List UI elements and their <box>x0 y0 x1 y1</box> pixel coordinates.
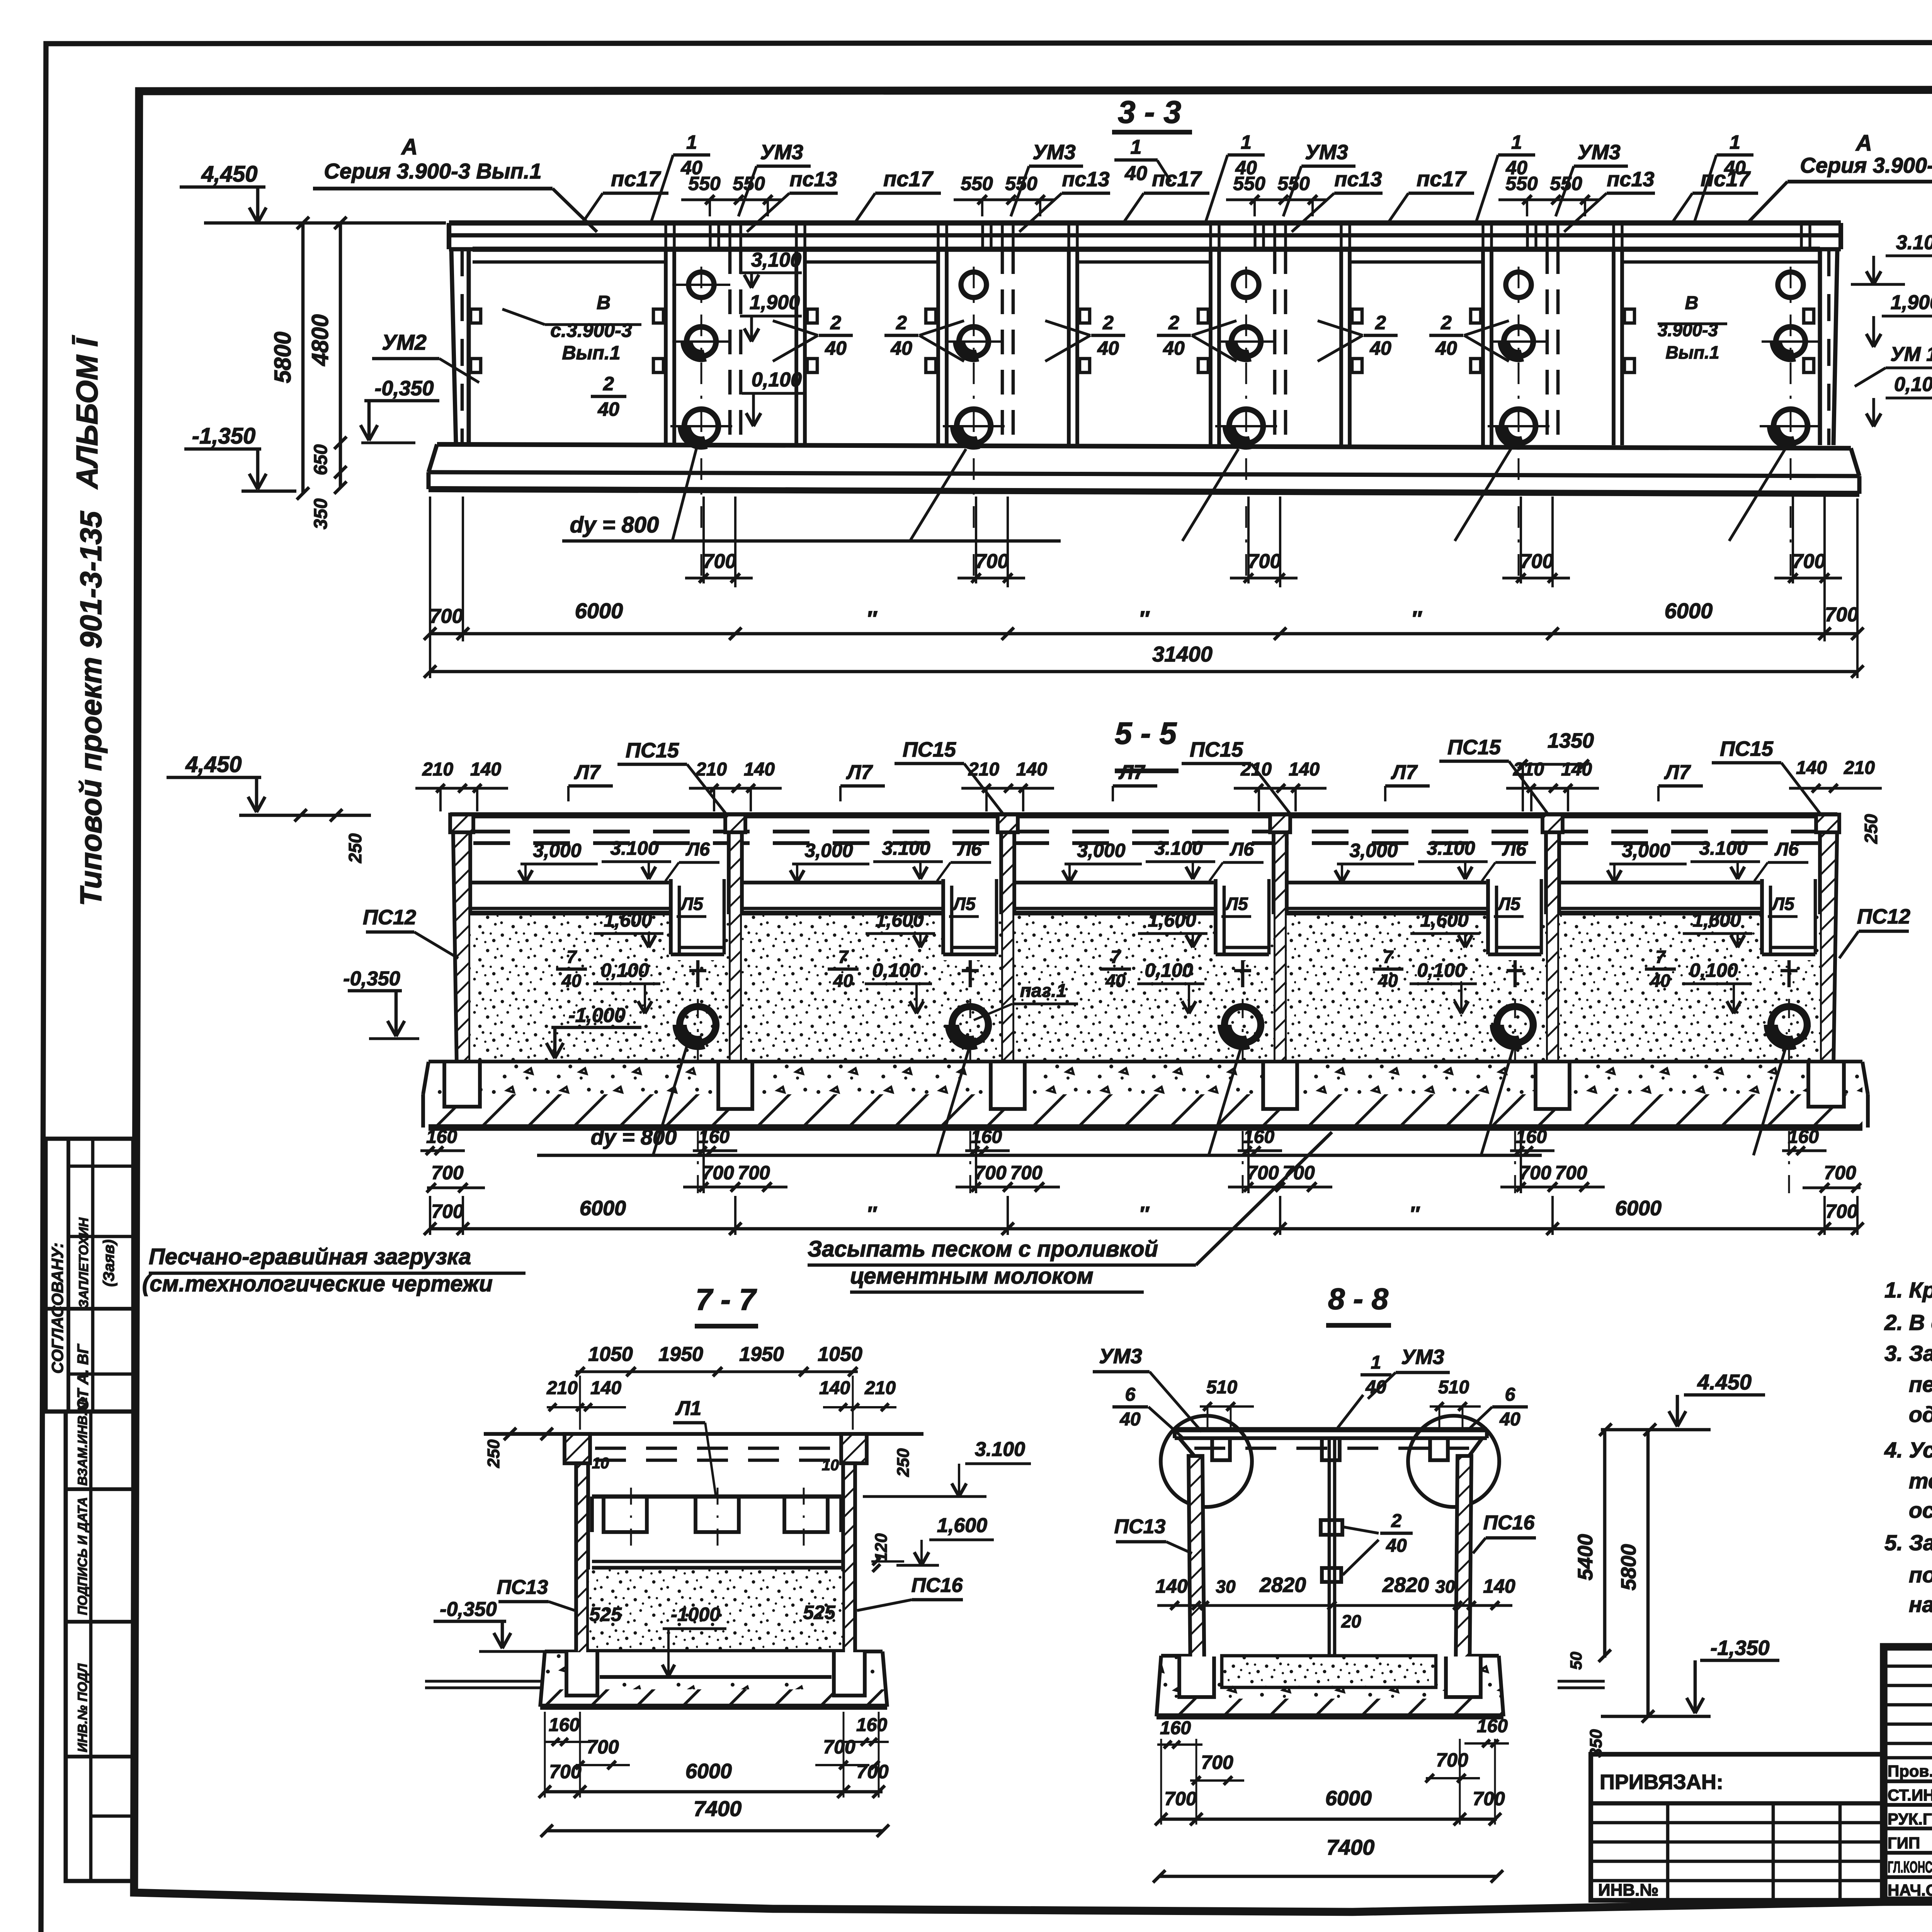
3-3 bay lower chord lines <box>473 260 666 264</box>
svg-text:Л5: Л5 <box>680 894 704 914</box>
svg-text:″: ″ <box>1411 606 1422 631</box>
svg-text:5800: 5800 <box>1617 1544 1640 1590</box>
svg-text:Л7: Л7 <box>574 761 601 784</box>
svg-text:dy = 800: dy = 800 <box>591 1125 677 1149</box>
svg-text:пс17: пс17 <box>1417 167 1467 191</box>
svg-text:350: 350 <box>311 498 331 529</box>
svg-text:7400: 7400 <box>1327 1835 1375 1859</box>
svg-text:210: 210 <box>1844 758 1875 778</box>
svg-text:30: 30 <box>1435 1577 1455 1597</box>
svg-text:550: 550 <box>1550 173 1582 194</box>
svg-text:3.100: 3.100 <box>1427 837 1475 859</box>
svg-text:ПС16: ПС16 <box>1483 1512 1535 1534</box>
svg-text:700: 700 <box>1010 1162 1043 1184</box>
svg-text:160: 160 <box>856 1715 887 1735</box>
svg-text:7: 7 <box>1111 947 1121 967</box>
svg-text:250: 250 <box>345 833 365 863</box>
svg-text:0,100: 0,100 <box>1894 373 1932 396</box>
svg-text:700: 700 <box>823 1736 855 1758</box>
svg-text:2820: 2820 <box>1259 1573 1306 1597</box>
svg-text:0,100: 0,100 <box>872 959 920 981</box>
svg-text:40: 40 <box>890 337 912 359</box>
svg-text:с.3.900-3: с.3.900-3 <box>550 320 632 341</box>
8-8 walls <box>1189 1456 1204 1685</box>
svg-text:Л5: Л5 <box>952 894 976 914</box>
svg-text:40: 40 <box>825 337 847 359</box>
svg-text:Л6: Л6 <box>957 839 981 860</box>
svg-text:-1000: -1000 <box>671 1604 720 1625</box>
svg-text:ГИП: ГИП <box>1888 1834 1920 1852</box>
svg-text:Л6: Л6 <box>1774 839 1799 860</box>
svg-text:10: 10 <box>592 1455 609 1472</box>
svg-text:160: 160 <box>1160 1718 1191 1738</box>
svg-text:700: 700 <box>1436 1749 1468 1771</box>
svg-text:УМ3: УМ3 <box>1099 1345 1142 1368</box>
svg-text:700: 700 <box>1825 604 1859 626</box>
svg-text:7400: 7400 <box>694 1796 742 1821</box>
svg-text:4.450: 4.450 <box>1697 1370 1752 1394</box>
svg-text:1: 1 <box>1730 131 1740 153</box>
svg-text:Л7: Л7 <box>1391 761 1418 784</box>
svg-text:210: 210 <box>864 1378 896 1398</box>
svg-text:ПС15: ПС15 <box>626 739 679 762</box>
svg-text:пс17: пс17 <box>883 167 934 191</box>
svg-text:паз.1: паз.1 <box>1020 981 1067 1001</box>
svg-text:Песчано-гравийная загрузка: Песчано-гравийная загрузка <box>149 1244 471 1269</box>
svg-text:550: 550 <box>1233 173 1265 194</box>
svg-text:700: 700 <box>1247 1162 1279 1184</box>
svg-text:160: 160 <box>549 1715 580 1735</box>
3-3 pipes dy800 <box>689 272 714 298</box>
svg-text:Типовой проект 901-3-135: Типовой проект 901-3-135 <box>74 510 108 906</box>
svg-text:140: 140 <box>1483 1575 1515 1597</box>
svg-text:(Заяв): (Заяв) <box>100 1240 117 1287</box>
svg-text:4,450: 4,450 <box>201 162 257 187</box>
svg-text:8 - 8: 8 - 8 <box>1328 1282 1389 1316</box>
svg-text:ИНВ.№ ПОДЛ: ИНВ.№ ПОДЛ <box>75 1663 90 1752</box>
svg-text:ПРИВЯЗАН:: ПРИВЯЗАН: <box>1600 1770 1723 1794</box>
svg-text:Серия 3.900-3.Вып.1: Серия 3.900-3.Вып.1 <box>1800 153 1932 177</box>
svg-text:6000: 6000 <box>1665 599 1713 623</box>
svg-text:700: 700 <box>1473 1788 1505 1810</box>
svg-text:3,000: 3,000 <box>533 840 581 861</box>
svg-text:1,900: 1,900 <box>750 291 800 314</box>
svg-text:40: 40 <box>1386 1536 1407 1556</box>
svg-text:УМ3: УМ3 <box>1032 141 1076 164</box>
svg-text:40: 40 <box>1369 337 1391 359</box>
svg-text:2: 2 <box>896 312 907 333</box>
svg-text:В: В <box>1685 293 1699 313</box>
binding block (privyazan) <box>1591 1754 1883 1900</box>
svg-text:1: 1 <box>1371 1352 1381 1373</box>
svg-text:ПС15: ПС15 <box>1447 736 1501 759</box>
svg-text:АЛЬБОМ Ī: АЛЬБОМ Ī <box>70 335 104 490</box>
svg-text:пс13: пс13 <box>1607 168 1654 191</box>
svg-text:ВЗАМ.ИНВ.№: ВЗАМ.ИНВ.№ <box>75 1397 90 1486</box>
svg-text:УМ3: УМ3 <box>1577 141 1621 164</box>
svg-text:550: 550 <box>733 173 765 194</box>
svg-text:песчано-гравийную загрузку фил: песчано-гравийную загрузку фильтров прои… <box>1909 1372 1932 1397</box>
svg-text:1950: 1950 <box>658 1343 703 1366</box>
svg-text:2: 2 <box>603 373 614 395</box>
svg-text:СТ.ИНЖ: СТ.ИНЖ <box>1888 1786 1932 1804</box>
svg-text:0,100: 0,100 <box>1417 959 1465 981</box>
svg-text:(см.технологические чертежи: (см.технологические чертежи <box>142 1271 493 1296</box>
svg-text:5800: 5800 <box>270 332 296 383</box>
main title block <box>1884 1647 1932 1900</box>
svg-text:3.100: 3.100 <box>1896 231 1932 254</box>
svg-text:1,600: 1,600 <box>1148 909 1196 931</box>
svg-text:по узлам 17,18 серии 3900-3 вы: по узлам 17,18 серии 3900-3 вып.2 с заме… <box>1909 1563 1932 1587</box>
svg-text:7: 7 <box>1655 947 1666 967</box>
svg-text:ПС15: ПС15 <box>903 738 956 761</box>
svg-text:550: 550 <box>1005 173 1037 194</box>
svg-text:550: 550 <box>1505 173 1538 194</box>
svg-text:dy = 800: dy = 800 <box>570 512 659 537</box>
svg-text:700: 700 <box>738 1162 770 1184</box>
svg-text:3.100: 3.100 <box>975 1438 1025 1461</box>
svg-text:Серия 3.900-3 Вып.1: Серия 3.900-3 Вып.1 <box>324 159 541 183</box>
svg-text:525: 525 <box>803 1602 836 1623</box>
svg-text:1: 1 <box>1511 131 1522 153</box>
svg-text:700: 700 <box>1248 550 1281 573</box>
svg-text:40: 40 <box>561 971 582 991</box>
svg-text:40: 40 <box>1097 337 1119 359</box>
svg-text:6: 6 <box>1125 1384 1136 1405</box>
svg-text:3.100: 3.100 <box>1154 837 1202 859</box>
svg-text:1050: 1050 <box>818 1343 862 1366</box>
svg-text:700: 700 <box>430 605 463 628</box>
svg-text:250: 250 <box>484 1439 503 1468</box>
svg-text:40: 40 <box>1724 157 1746 179</box>
svg-text:2: 2 <box>1168 312 1179 333</box>
svg-text:10: 10 <box>822 1457 839 1474</box>
svg-text:50: 50 <box>1567 1652 1585 1670</box>
svg-text:140: 140 <box>470 759 501 780</box>
svg-text:700: 700 <box>702 1162 734 1184</box>
svg-text:2820: 2820 <box>1382 1573 1429 1597</box>
svg-text:7: 7 <box>1383 947 1394 967</box>
svg-text:510: 510 <box>1438 1377 1469 1398</box>
8-8 foundation <box>1156 1656 1503 1716</box>
svg-text:1: 1 <box>1131 136 1142 158</box>
svg-text:40: 40 <box>1365 1377 1386 1398</box>
svg-text:Пров.: Пров. <box>1888 1762 1932 1780</box>
svg-text:″: ″ <box>866 1202 877 1226</box>
svg-text:РУК.ГР.: РУК.ГР. <box>1888 1810 1932 1828</box>
8-8 right dims <box>1603 1430 1607 1658</box>
svg-text:УМ3: УМ3 <box>760 141 803 164</box>
svg-text:1. Крепление лотков Л3 дано на: 1. Крепление лотков Л3 дано на листе КЖ-… <box>1884 1278 1932 1303</box>
svg-text:2: 2 <box>1391 1511 1402 1531</box>
svg-text:1,600: 1,600 <box>1692 909 1741 931</box>
svg-text:Л6: Л6 <box>1502 839 1526 860</box>
svg-text:250: 250 <box>894 1448 913 1477</box>
svg-text:ПС13: ПС13 <box>497 1576 548 1599</box>
svg-text:″: ″ <box>866 606 878 631</box>
svg-text:УМ2: УМ2 <box>382 330 427 354</box>
svg-text:0,100: 0,100 <box>1145 959 1193 981</box>
svg-text:3 - 3: 3 - 3 <box>1118 95 1181 130</box>
svg-text:40: 40 <box>1105 971 1126 991</box>
svg-text:550: 550 <box>961 173 993 194</box>
svg-text:В: В <box>597 292 611 313</box>
svg-text:ПС16: ПС16 <box>912 1574 963 1597</box>
svg-text:650: 650 <box>311 444 331 475</box>
svg-text:210: 210 <box>696 759 727 780</box>
svg-text:-1,350: -1,350 <box>1710 1636 1769 1660</box>
svg-text:31400: 31400 <box>1152 642 1213 666</box>
svg-text:Вып.1: Вып.1 <box>1666 342 1719 362</box>
7-7 comb slab L1 <box>592 1495 841 1499</box>
svg-text:ПС12: ПС12 <box>1857 905 1910 928</box>
svg-text:3. Засыпку песком с проливкой: 3. Засыпку песком с проливкой цементным … <box>1884 1341 1932 1366</box>
svg-text:Л5: Л5 <box>1225 894 1248 914</box>
svg-text:-0,350: -0,350 <box>374 377 434 400</box>
svg-text:3.100: 3.100 <box>610 837 658 859</box>
svg-text:0,100: 0,100 <box>600 959 649 981</box>
svg-text:-0,350: -0,350 <box>343 968 400 990</box>
svg-text:2. В сечении 8-8 лотки Л3 усло: 2. В сечении 8-8 лотки Л3 условно не пок… <box>1884 1310 1932 1335</box>
svg-text:ПОДПИСЬ И ДАТА: ПОДПИСЬ И ДАТА <box>75 1497 90 1615</box>
svg-text:ПС13: ПС13 <box>1114 1515 1166 1538</box>
svg-text:20: 20 <box>1341 1611 1361 1631</box>
svg-text:700: 700 <box>1824 1162 1856 1184</box>
svg-text:120: 120 <box>872 1533 891 1562</box>
svg-text:6000: 6000 <box>1325 1787 1372 1810</box>
svg-text:700: 700 <box>1519 1162 1551 1184</box>
svg-text:ПС15: ПС15 <box>1190 738 1243 761</box>
svg-text:140: 140 <box>1016 759 1047 780</box>
svg-text:1,600: 1,600 <box>604 909 652 931</box>
svg-text:40: 40 <box>1119 1409 1141 1430</box>
svg-text:ГЛ.КОНСТР: ГЛ.КОНСТР <box>1888 1858 1932 1876</box>
svg-text:3,000: 3,000 <box>804 840 853 861</box>
svg-text:0,100: 0,100 <box>752 369 802 391</box>
svg-text:1,600: 1,600 <box>937 1514 987 1537</box>
svg-text:140: 140 <box>590 1378 621 1398</box>
svg-text:160: 160 <box>1477 1716 1508 1736</box>
svg-text:-1,000: -1,000 <box>568 1004 626 1027</box>
7-7 roof level line <box>484 1432 923 1436</box>
svg-text:140: 140 <box>1155 1575 1188 1597</box>
svg-text:700: 700 <box>974 1162 1007 1184</box>
svg-text:Засыпать песком с проливкой: Засыпать песком с проливкой <box>808 1236 1158 1262</box>
svg-text:3.100: 3.100 <box>1699 837 1747 859</box>
svg-text:7: 7 <box>566 947 577 967</box>
svg-text:7: 7 <box>838 947 849 967</box>
svg-text:1: 1 <box>686 131 697 153</box>
svg-text:2: 2 <box>1102 312 1114 333</box>
svg-text:1950: 1950 <box>739 1343 784 1366</box>
svg-text:1050: 1050 <box>588 1343 633 1366</box>
3-3 roof slab <box>449 220 1841 225</box>
svg-text:одновременно.: одновременно. <box>1909 1402 1932 1427</box>
svg-text:2: 2 <box>1375 312 1386 333</box>
3-3 vertical dims 5800/4800 <box>301 223 305 493</box>
svg-text:цементным молоком: цементным молоком <box>850 1264 1094 1289</box>
svg-text:А: А <box>1855 131 1872 156</box>
svg-text:-1,350: -1,350 <box>192 423 255 449</box>
svg-text:Л7: Л7 <box>1118 761 1146 784</box>
svg-text:Л6: Л6 <box>1230 839 1254 860</box>
svg-text:700: 700 <box>587 1736 619 1758</box>
5-5 bays: filter media, edge beams, trays <box>470 914 729 1062</box>
svg-text:ПС12: ПС12 <box>363 906 416 929</box>
svg-text:ИНВ.№: ИНВ.№ <box>1598 1881 1658 1900</box>
7-7 sand fill <box>589 1570 842 1651</box>
5-5 outer walls PS12 <box>453 815 470 1066</box>
svg-text:4,450: 4,450 <box>185 752 241 777</box>
svg-text:700: 700 <box>975 550 1009 573</box>
7-7 dashed lines <box>595 1447 840 1450</box>
svg-text:на 50 мм.: на 50 мм. <box>1909 1592 1932 1617</box>
svg-text:140: 140 <box>1289 759 1320 780</box>
svg-text:700: 700 <box>1825 1201 1858 1222</box>
svg-text:40: 40 <box>1435 337 1457 359</box>
svg-text:УМ3: УМ3 <box>1401 1345 1444 1369</box>
svg-text:700: 700 <box>703 550 736 573</box>
svg-text:40: 40 <box>597 398 619 420</box>
svg-text:210: 210 <box>546 1378 578 1398</box>
svg-text:А: А <box>401 134 418 160</box>
svg-text:2: 2 <box>830 312 841 333</box>
svg-text:700: 700 <box>856 1761 889 1782</box>
svg-text:УМ 1А: УМ 1А <box>1890 343 1932 366</box>
svg-text:1350: 1350 <box>1548 729 1594 752</box>
svg-text:700: 700 <box>549 1761 582 1782</box>
svg-text:пс17: пс17 <box>1152 167 1202 191</box>
svg-text:40: 40 <box>1124 162 1147 185</box>
3-3 wall clips <box>653 309 663 323</box>
svg-text:6000: 6000 <box>685 1760 732 1783</box>
svg-text:пс13: пс13 <box>1062 168 1109 191</box>
svg-text:140: 140 <box>819 1378 850 1398</box>
svg-text:700: 700 <box>1792 550 1826 573</box>
svg-text:6000: 6000 <box>1615 1197 1662 1220</box>
svg-text:тельной выверкой горизонтальны: тельной выверкой горизонтальных и вертик… <box>1909 1469 1932 1493</box>
svg-text:6: 6 <box>1505 1384 1515 1405</box>
svg-text:Л7: Л7 <box>846 761 873 784</box>
svg-text:пс13: пс13 <box>789 168 837 191</box>
8-8 center joint <box>1328 1438 1331 1660</box>
svg-text:1,600: 1,600 <box>875 909 923 931</box>
svg-text:30: 30 <box>1216 1577 1236 1597</box>
svg-text:пс17: пс17 <box>611 167 661 191</box>
svg-text:1,600: 1,600 <box>1420 909 1468 931</box>
svg-text:1: 1 <box>1241 131 1252 153</box>
svg-text:пс13: пс13 <box>1334 168 1382 191</box>
svg-text:ЗАПЛЕТОХИН: ЗАПЛЕТОХИН <box>77 1217 91 1308</box>
svg-text:3,000: 3,000 <box>1622 840 1670 861</box>
svg-text:40: 40 <box>1163 337 1185 359</box>
svg-text:Л6: Л6 <box>685 839 710 860</box>
svg-text:6000: 6000 <box>580 1197 626 1220</box>
svg-text:Л5: Л5 <box>1497 894 1521 914</box>
svg-text:3,000: 3,000 <box>1349 840 1398 861</box>
svg-text:210: 210 <box>422 759 453 780</box>
svg-text:700: 700 <box>1555 1162 1587 1184</box>
3-3 walls <box>451 249 456 444</box>
5-5 dashed channel lines <box>473 830 1818 833</box>
7-7 shelf lines <box>592 1560 841 1563</box>
svg-text:осей.: осей. <box>1909 1498 1932 1523</box>
5-5 interior walls <box>729 815 742 1110</box>
svg-text:550: 550 <box>1277 173 1310 194</box>
svg-text:Вып.1: Вып.1 <box>562 342 620 364</box>
svg-text:Л5: Л5 <box>1771 894 1795 914</box>
8-8 roof slab <box>1175 1427 1487 1432</box>
5-5 roof line <box>450 812 1837 818</box>
svg-text:″: ″ <box>1139 606 1150 631</box>
svg-text:1,900: 1,900 <box>1891 291 1932 314</box>
svg-text:5. Заделка стеновых панелей в: 5. Заделка стеновых панелей в паз днища … <box>1884 1531 1932 1555</box>
svg-text:НАЧ.ОТД: НАЧ.ОТД <box>1888 1881 1932 1899</box>
svg-text:УМ3: УМ3 <box>1305 141 1348 164</box>
svg-text:40: 40 <box>1378 971 1398 991</box>
svg-text:3.100: 3.100 <box>882 837 930 859</box>
svg-text:550: 550 <box>688 173 721 194</box>
svg-text:-0,350: -0,350 <box>440 1598 497 1621</box>
svg-text:510: 510 <box>1206 1377 1237 1398</box>
svg-text:210: 210 <box>1513 759 1544 780</box>
svg-text:3,100: 3,100 <box>751 249 801 271</box>
left inventory strip <box>66 1412 133 1881</box>
svg-text:4800: 4800 <box>307 314 333 366</box>
svg-text:Л1: Л1 <box>675 1397 702 1420</box>
3-3 foundation slab <box>437 444 1851 448</box>
svg-text:160: 160 <box>426 1127 457 1147</box>
svg-text:2: 2 <box>1440 312 1452 333</box>
svg-text:7 - 7: 7 - 7 <box>696 1282 757 1316</box>
svg-text:СОГЛАСОВАНУ:: СОГЛАСОВАНУ: <box>48 1243 66 1374</box>
svg-text:700: 700 <box>431 1162 464 1184</box>
svg-text:5 - 5: 5 - 5 <box>1115 716 1177 750</box>
svg-text:6000: 6000 <box>575 599 623 623</box>
svg-text:160: 160 <box>1788 1127 1819 1147</box>
3-3 total dimension 31400 <box>430 670 1857 673</box>
svg-text:Л7: Л7 <box>1664 761 1691 784</box>
svg-text:40: 40 <box>1650 971 1670 991</box>
svg-text:3,000: 3,000 <box>1077 840 1125 861</box>
svg-text:″: ″ <box>1409 1202 1420 1226</box>
svg-text:250: 250 <box>1861 814 1881 844</box>
svg-text:ПС15: ПС15 <box>1720 737 1774 760</box>
svg-text:40: 40 <box>1499 1409 1520 1430</box>
approval stamp block <box>46 1139 133 1412</box>
svg-text:140: 140 <box>744 759 775 780</box>
5-5 bottom slab <box>429 1060 1862 1064</box>
svg-text:″: ″ <box>1139 1202 1150 1226</box>
7-7 foundation <box>540 1651 887 1707</box>
7-7 walls PS13/PS16 <box>565 1434 590 1463</box>
svg-text:700: 700 <box>1201 1752 1233 1773</box>
svg-text:700: 700 <box>1164 1788 1197 1810</box>
svg-text:700: 700 <box>431 1201 464 1222</box>
8-8 detail circles <box>1161 1416 1252 1507</box>
svg-text:140: 140 <box>1796 758 1827 778</box>
svg-text:4. Установку стеновых панелей: 4. Установку стеновых панелей производит… <box>1884 1438 1932 1463</box>
svg-text:0,100: 0,100 <box>1689 959 1738 981</box>
svg-text:40: 40 <box>833 971 853 991</box>
svg-text:5400: 5400 <box>1574 1534 1597 1580</box>
svg-text:525: 525 <box>589 1604 622 1625</box>
svg-text:700: 700 <box>1520 550 1554 573</box>
